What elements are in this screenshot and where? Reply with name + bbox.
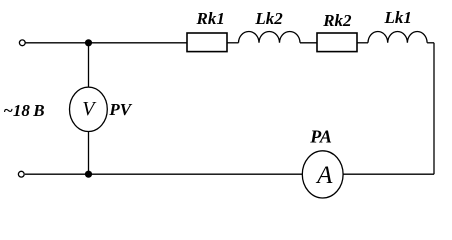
wire Rk2 to Lk1 (357, 42, 368, 44)
svg-text:PV: PV (108, 100, 132, 119)
svg-text:Rk1: Rk1 (196, 9, 225, 28)
wire voltmeter bottom to bottom junction (88, 132, 90, 175)
terminal bottom-left (18, 171, 24, 177)
resistor Rk1 (187, 33, 227, 52)
resistor Rk2 (317, 33, 357, 52)
wire top from terminal to resistor Rk1 (25, 42, 187, 44)
node junction bottom (85, 171, 92, 178)
voltmeter PV (70, 87, 108, 131)
wire Lk1 to right corner (427, 42, 434, 44)
inductor Lk1 (368, 31, 427, 42)
svg-text:Lk2: Lk2 (254, 9, 283, 28)
wire bottom right to ammeter (343, 173, 434, 175)
inductor Lk2 (238, 32, 300, 43)
wire Rk1 to Lk2 (227, 42, 239, 44)
wire Lk2 to Rk2 (300, 42, 317, 44)
svg-text:PA: PA (309, 126, 332, 146)
node junction top (85, 39, 92, 46)
svg-text:~18 В: ~18 В (3, 101, 44, 120)
svg-text:Lk1: Lk1 (384, 8, 412, 27)
svg-text:Rk2: Rk2 (322, 11, 352, 30)
wire junction to voltmeter top (88, 43, 90, 87)
wire ammeter to bottom junction and terminal (25, 173, 302, 175)
svg-text:A: A (315, 162, 333, 189)
terminal top-left (19, 40, 25, 46)
ammeter PA (302, 151, 343, 198)
wire right vertical (433, 43, 435, 174)
